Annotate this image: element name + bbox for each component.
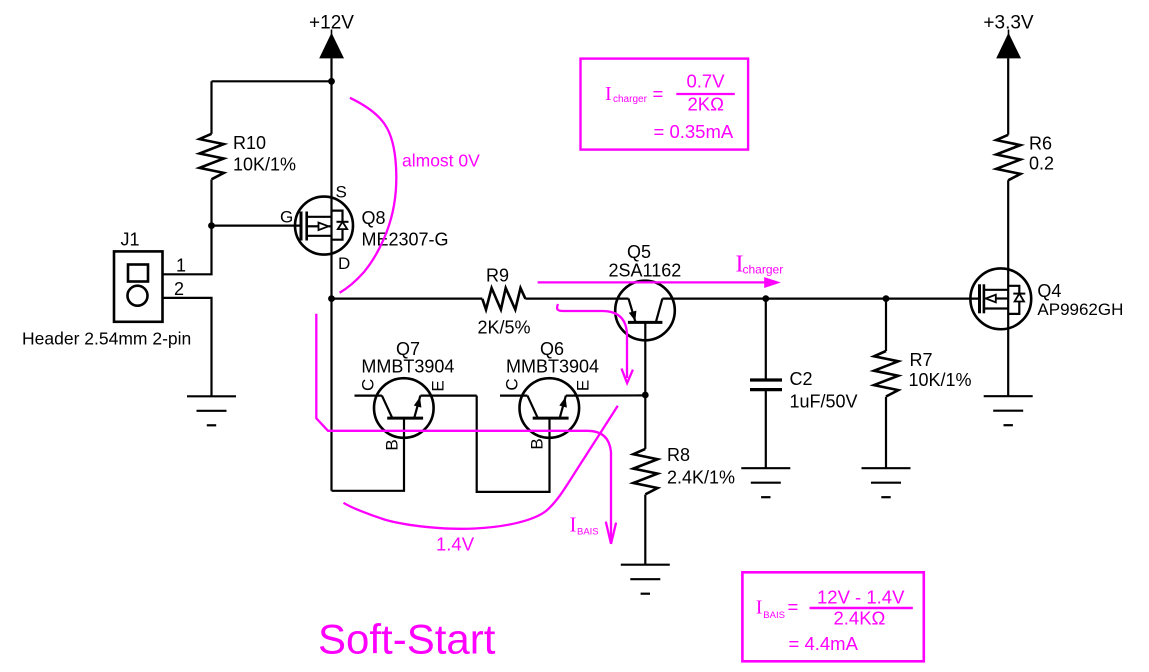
resistor R10 [200,81,297,225]
ground under J1 [187,396,236,425]
svg-text:10K/1%: 10K/1% [909,370,972,390]
svg-text:MMBT3904: MMBT3904 [361,356,454,376]
annotation almost 0V arc [340,98,481,293]
svg-text:BAIS: BAIS [763,610,785,621]
svg-text:C: C [358,379,377,391]
svg-text:= 0.35mA: = 0.35mA [654,121,734,142]
svg-text:J1: J1 [121,230,140,250]
svg-text:charger: charger [613,94,648,105]
svg-text:I: I [756,597,763,619]
svg-text:charger: charger [743,263,784,277]
transistor Q5 [609,242,682,395]
ground under C2 [741,468,790,497]
node junction at +12V/R10 [328,78,335,85]
svg-text:= 4.4mA: = 4.4mA [789,633,859,654]
svg-text:MMBT3904: MMBT3904 [506,356,599,376]
capacitor C2 [750,299,858,469]
resistor R6 [996,134,1054,269]
svg-text:R6: R6 [1029,134,1052,154]
svg-text:=: = [788,596,799,617]
svg-text:C2: C2 [790,369,813,389]
resistor R7 [874,299,972,469]
svg-text:2SA1162: 2SA1162 [609,260,682,280]
svg-text:R7: R7 [910,350,933,370]
svg-text:E: E [574,380,593,391]
ground under Q4 [984,396,1033,425]
transistor Q4 [970,268,1123,396]
transistor Q8 [280,182,449,273]
svg-text:Q8: Q8 [362,208,386,228]
svg-text:R8: R8 [667,445,690,465]
svg-text:E: E [429,380,448,391]
power +3.3V [983,13,1034,59]
annotation Icharger arrow [538,252,784,289]
svg-text:I: I [570,513,577,537]
wire bus left segment [332,298,483,300]
svg-text:C: C [502,378,521,390]
ground under R7 [862,468,911,497]
svg-text:I: I [605,83,612,105]
resistor R8 [633,395,735,565]
annotation Q5 base current arrow [557,304,633,383]
svg-text:Soft-Start: Soft-Start [318,616,496,663]
node junction Q5 base / Q6 emitter / R8 [642,392,649,399]
ground under R8 [621,565,670,594]
annotation Ibais flow arrow [316,314,616,544]
wire Q7 base U [332,418,405,491]
svg-text:almost 0V: almost 0V [402,151,480,171]
svg-text:ME2307-G: ME2307-G [362,230,449,250]
svg-text:Header 2.54mm 2-pin: Header 2.54mm 2-pin [22,329,191,349]
wire J1 pin1 [163,226,212,275]
resistor R9 [478,265,531,337]
svg-text:10K/1%: 10K/1% [233,155,296,175]
svg-text:0.7V: 0.7V [687,71,726,92]
svg-text:R10: R10 [233,133,266,153]
wire top to R10 [212,80,332,82]
svg-text:S: S [336,182,347,201]
svg-text:B: B [382,439,401,450]
svg-text:D: D [338,254,350,273]
annotation formula box Icharger [581,59,749,150]
wire J1 pin2 [163,298,212,396]
annotation formula box Ibais [742,572,923,661]
svg-text:2.4KΩ: 2.4KΩ [834,608,886,629]
wire Q7 emitter to Q6 base U [477,396,550,492]
svg-text:1.4V: 1.4V [436,534,475,555]
svg-text:2.4K/1%: 2.4K/1% [667,468,735,488]
svg-text:0.2: 0.2 [1029,154,1054,174]
svg-text:=: = [653,83,664,104]
svg-text:2K/5%: 2K/5% [478,318,531,338]
node junction R10/gate/J1 [208,222,215,229]
connector J1 [22,230,191,349]
svg-text:Q5: Q5 [627,242,651,262]
node junction C2 [762,295,769,302]
annotation 1.4V curve [344,406,618,555]
wire +12V vertical main [330,58,332,491]
svg-text:AP9962GH: AP9962GH [1037,300,1123,319]
svg-text:B: B [528,438,547,449]
svg-text:Q4: Q4 [1037,281,1061,301]
wire +3.3V vertical [1007,58,1009,135]
svg-text:BAIS: BAIS [577,527,599,538]
svg-text:1uF/50V: 1uF/50V [790,392,858,412]
node junction R7 [883,295,890,302]
wire R9 to Q5 emitter [525,298,628,300]
svg-text:2KΩ: 2KΩ [688,93,725,114]
power +12V [309,13,354,59]
svg-text:2: 2 [174,279,184,299]
svg-text:12V - 1.4V: 12V - 1.4V [817,587,905,608]
svg-text:R9: R9 [486,265,509,285]
transistor Q7 [355,339,477,451]
svg-text:G: G [280,208,293,227]
wire gate of Q8 [212,225,302,227]
wire Q5 collector to Q4 gate bus [662,298,979,300]
node junction Q8 drain / bus [328,295,335,302]
transistor Q6 [500,339,645,450]
svg-text:1: 1 [176,255,186,275]
